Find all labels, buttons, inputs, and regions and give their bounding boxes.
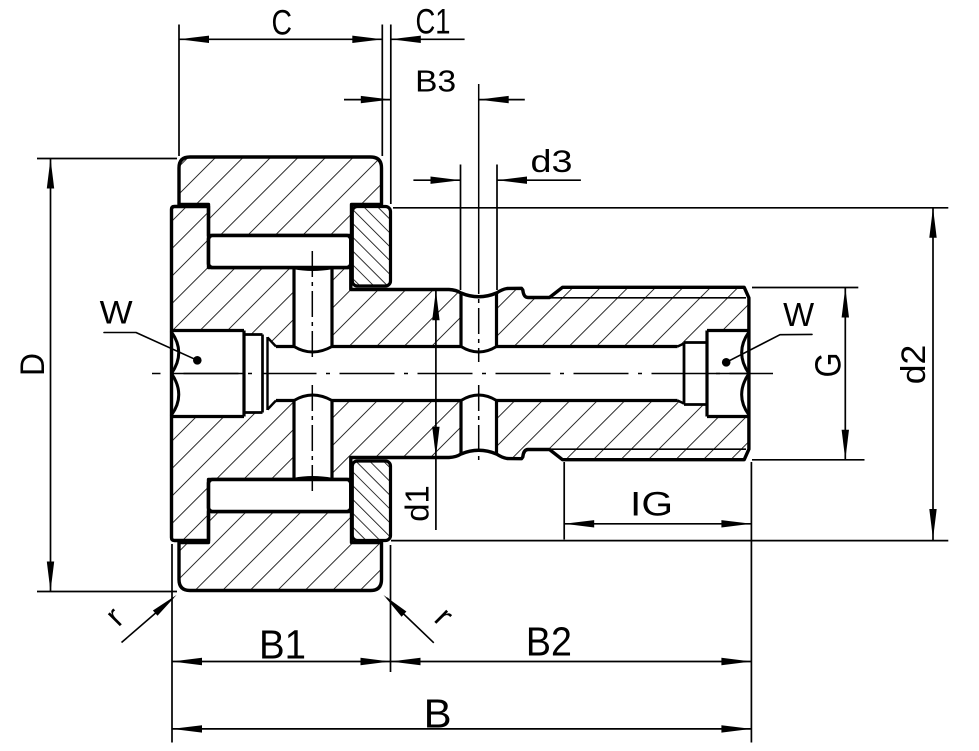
main axis centerline [152, 373, 773, 375]
lube hole 1 bottom breakthrough arc [294, 395, 332, 401]
svg-text:W: W [100, 294, 133, 330]
extension line right (end face extended) [750, 462, 752, 743]
hex socket right (W) [707, 329, 749, 332]
dimension d1 [435, 290, 437, 530]
outer ring top outline [179, 157, 382, 236]
dimension C [178, 25, 180, 157]
end plate bottom (hatched, opposite direction) [352, 461, 390, 541]
dimension G [752, 287, 858, 289]
dimension B3 [344, 99, 391, 101]
lube hole 2 bottom breakthrough arc [461, 395, 497, 401]
needle roller top [209, 236, 351, 268]
lube hole 1 centerline top [311, 251, 313, 362]
outer ring bottom outline [179, 512, 382, 591]
label W right with leader [722, 358, 731, 367]
thread root line top [551, 297, 746, 299]
lube hole 1 top walls [292, 269, 295, 347]
svg-text:D: D [14, 353, 52, 376]
label r right with leader [387, 598, 434, 643]
svg-text:G: G [808, 353, 849, 378]
svg-text:d1: d1 [400, 485, 437, 522]
svg-text:d3: d3 [531, 143, 573, 179]
lube hole 2 top walls (d3) [459, 293, 462, 347]
lube hole 2 bottom walls [459, 401, 462, 455]
label W left with leader [193, 356, 202, 365]
svg-text:C1: C1 [416, 2, 451, 42]
dimension D [37, 158, 177, 160]
lube hole 2 centerline top [478, 268, 480, 362]
outer ring top cross-section (hatched) [179, 157, 382, 236]
end plate top (hatched, opposite direction) [352, 207, 390, 287]
svg-text:B2: B2 [526, 619, 572, 665]
svg-text:B3: B3 [415, 64, 456, 98]
dimension B2 [391, 661, 752, 663]
svg-text:d2: d2 [895, 345, 933, 385]
thread root line bottom [551, 448, 746, 450]
hex socket left (W) [172, 329, 245, 332]
svg-text:C: C [272, 3, 293, 43]
label r left with leader [122, 598, 174, 643]
lube hole 1 top breakthrough arc [294, 347, 332, 353]
dimension IG [563, 462, 565, 540]
dimension C1 [391, 38, 465, 40]
needle roller bottom [209, 480, 351, 512]
lube hole 1 bottom walls [292, 401, 295, 479]
dimension B1 [172, 661, 391, 663]
stud with flanged head cross-section (hatched) [172, 207, 749, 541]
outer ring bottom cross-section (hatched) [179, 512, 382, 591]
svg-text:B: B [424, 691, 452, 737]
dimension B [172, 728, 751, 730]
left bore step cavity [244, 333, 263, 336]
svg-text:B1: B1 [259, 622, 306, 668]
svg-text:W: W [783, 296, 815, 333]
lube hole 2 top breakthrough arc [461, 347, 497, 353]
right bore step cavity [684, 341, 707, 344]
stud internal cavities (hex sockets, bore, lube holes) white fill [172, 331, 245, 417]
stud and head outline [172, 207, 749, 541]
extension line between B1 and B2 [390, 545, 392, 672]
extension line left (head face extended) [171, 544, 173, 743]
lube hole 2 centerline bottom [478, 385, 480, 462]
central lubrication bore [276, 345, 294, 348]
dimension d3 [460, 165, 462, 291]
dimension d2 [393, 207, 948, 209]
lube hole 1 centerline bottom [311, 385, 313, 496]
svg-text:IG: IG [630, 486, 673, 524]
